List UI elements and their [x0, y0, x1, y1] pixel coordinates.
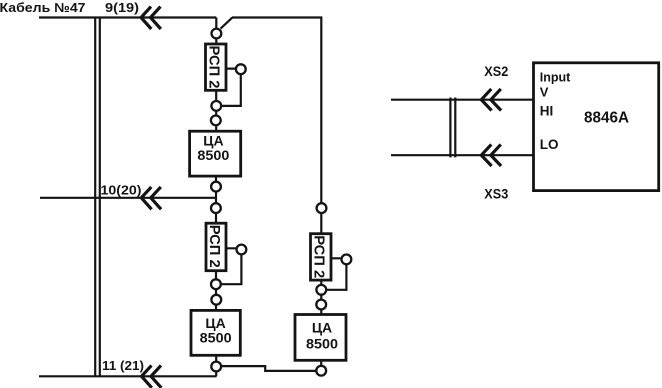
svg-text:8500: 8500 — [200, 329, 232, 345]
svg-text:V: V — [540, 85, 549, 100]
svg-text:8846A: 8846A — [584, 110, 629, 127]
svg-text:10(20): 10(20) — [101, 183, 142, 198]
svg-text:XS2: XS2 — [484, 63, 508, 79]
svg-text:8500: 8500 — [306, 335, 338, 351]
svg-text:8500: 8500 — [197, 147, 229, 163]
svg-text:XS3: XS3 — [484, 186, 508, 202]
svg-text:ЦА: ЦА — [312, 319, 332, 335]
svg-text:11 (21): 11 (21) — [102, 358, 144, 373]
svg-text:9(19): 9(19) — [105, 0, 139, 15]
svg-text:HI: HI — [540, 104, 554, 119]
svg-text:РСП 2: РСП 2 — [205, 46, 222, 89]
svg-text:LO: LO — [540, 137, 559, 152]
svg-text:Кабель №47: Кабель №47 — [0, 0, 86, 15]
svg-text:РСП 2: РСП 2 — [206, 225, 223, 268]
svg-text:РСП 2: РСП 2 — [310, 235, 327, 278]
svg-text:Input: Input — [540, 71, 571, 85]
